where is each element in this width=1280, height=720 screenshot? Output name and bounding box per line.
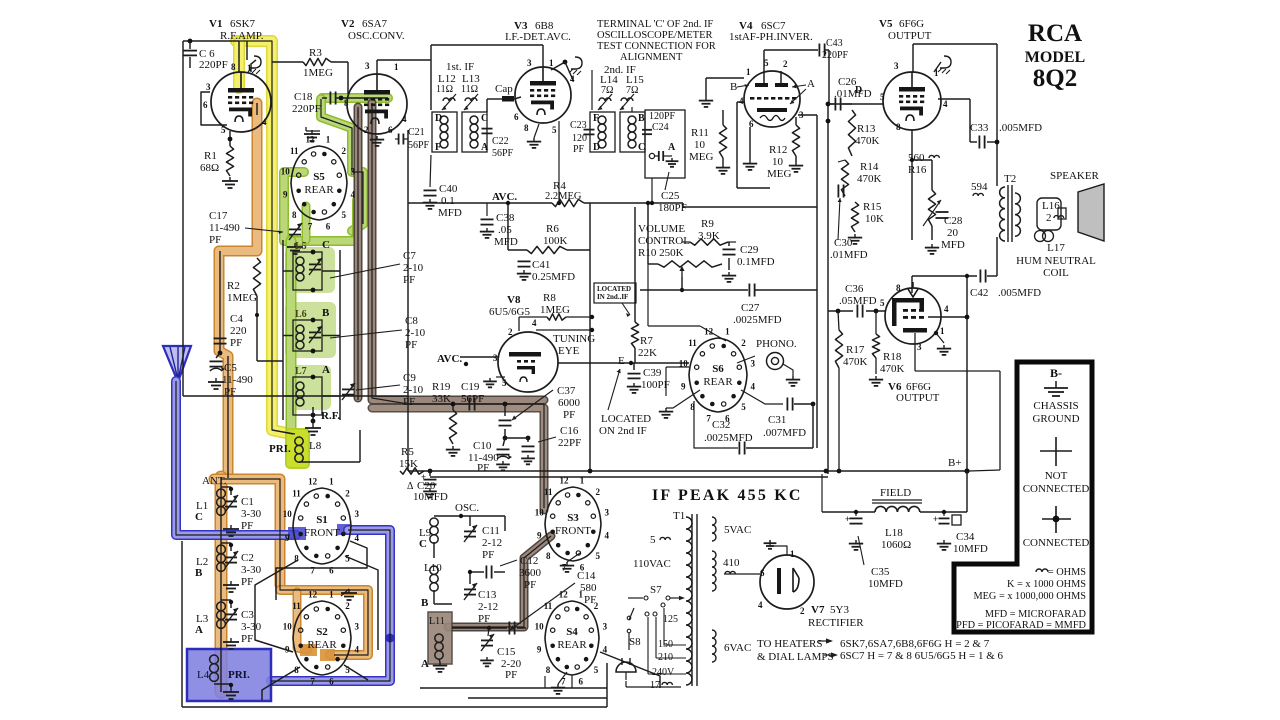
svg-text:T2: T2	[1004, 173, 1016, 185]
svg-text:220PF: 220PF	[199, 59, 228, 71]
label C20	[407, 480, 448, 503]
wire	[536, 328, 594, 332]
capacitor C43	[819, 44, 829, 105]
capacitor C20	[421, 471, 437, 497]
svg-text:4: 4	[351, 190, 356, 200]
node	[557, 201, 561, 205]
node	[339, 96, 344, 101]
svg-text:L10: L10	[424, 562, 442, 574]
svg-text:IF PEAK 455 KC: IF PEAK 455 KC	[652, 487, 803, 504]
label pin8 V2	[344, 98, 349, 108]
svg-text:1MEG: 1MEG	[303, 67, 333, 79]
svg-text:OSCILLOSCOPE/METER: OSCILLOSCOPE/METER	[597, 30, 713, 41]
tube V6	[885, 282, 941, 344]
capacitor C32	[739, 404, 813, 455]
capacitor C28	[912, 130, 965, 251]
label C24	[649, 111, 676, 133]
wire	[182, 41, 184, 396]
svg-text:4: 4	[739, 96, 744, 106]
label 1st IF	[436, 61, 480, 95]
svg-text:2: 2	[364, 125, 369, 135]
resistor R8	[519, 314, 594, 331]
svg-text:6: 6	[579, 676, 584, 686]
svg-text:11: 11	[688, 338, 697, 348]
resistor R1	[226, 146, 233, 176]
svg-text:MFD: MFD	[494, 236, 518, 248]
wire	[220, 251, 228, 478]
node	[229, 600, 233, 604]
label V8 type	[489, 306, 530, 318]
wire	[434, 516, 505, 531]
svg-text:3600: 3600	[519, 567, 542, 579]
svg-text:470K: 470K	[880, 363, 905, 375]
label C35	[858, 536, 903, 590]
svg-text:NOT: NOT	[1045, 470, 1068, 482]
svg-text:4: 4	[532, 318, 537, 328]
capacitor C27	[749, 284, 817, 297]
label 240V	[652, 667, 675, 678]
coil L1	[217, 489, 226, 515]
coil L7	[296, 382, 304, 406]
svg-text:56PF: 56PF	[461, 393, 484, 405]
node	[826, 102, 831, 124]
wire	[741, 390, 783, 404]
label C4	[230, 313, 247, 349]
svg-text:9: 9	[283, 190, 288, 200]
wire	[245, 228, 283, 234]
label PHONO	[756, 338, 797, 350]
svg-text:410: 410	[723, 557, 740, 569]
svg-text:PF: PF	[573, 144, 585, 155]
tube V8 tuning eye	[498, 332, 558, 392]
label C7	[403, 250, 424, 286]
svg-text:12: 12	[704, 327, 714, 337]
wire	[622, 303, 630, 317]
svg-text:V2: V2	[341, 18, 355, 30]
coil L4	[197, 655, 250, 681]
node	[503, 436, 531, 441]
node	[464, 362, 468, 366]
wire	[300, 644, 317, 656]
svg-text:C39: C39	[643, 367, 662, 379]
wire	[544, 676, 546, 688]
label B	[730, 81, 749, 93]
svg-text:MFD: MFD	[941, 239, 965, 251]
label C9	[403, 372, 424, 408]
svg-text:B: B	[195, 567, 203, 579]
svg-text:R9: R9	[701, 218, 714, 230]
capacitor C5	[210, 353, 226, 371]
svg-text:C37: C37	[557, 385, 576, 397]
wire	[283, 270, 340, 272]
svg-text:MFD: MFD	[438, 207, 462, 219]
label L18	[881, 527, 911, 551]
wire	[372, 107, 408, 404]
capacitor C13	[464, 572, 477, 600]
svg-text:= OHMS: = OHMS	[1048, 567, 1086, 578]
wire	[828, 103, 883, 105]
svg-text:11: 11	[290, 146, 299, 156]
wire	[285, 247, 335, 293]
svg-text:12: 12	[559, 590, 569, 600]
ground V4 pin1	[699, 97, 713, 107]
coil L4 highlight box	[187, 649, 271, 701]
svg-text:REAR: REAR	[304, 184, 334, 196]
label MEG OHMS	[973, 591, 1086, 602]
transformer T2 secondary	[1015, 193, 1020, 236]
svg-text:100K: 100K	[543, 235, 568, 247]
wire	[183, 41, 239, 72]
svg-text:1: 1	[790, 549, 795, 559]
resistor R2	[253, 258, 260, 296]
pin labels V4	[739, 58, 804, 129]
label B+	[948, 457, 962, 469]
svg-text:68Ω: 68Ω	[200, 162, 219, 174]
resistor R13	[848, 110, 879, 156]
label R9	[698, 218, 720, 242]
svg-text:TERMINAL 'C' OF 2nd. IF: TERMINAL 'C' OF 2nd. IF	[597, 19, 713, 30]
resistor R4	[552, 199, 584, 206]
svg-text:2-10: 2-10	[403, 262, 424, 274]
transformer T1 5VAC winding	[712, 517, 751, 541]
svg-text:C31: C31	[768, 414, 786, 426]
wire	[239, 41, 293, 434]
svg-text:210: 210	[658, 652, 673, 663]
pin 4	[262, 117, 267, 127]
wire	[302, 206, 311, 240]
ground C40	[423, 199, 437, 209]
capacitor C23	[570, 120, 595, 155]
coil L8	[272, 430, 322, 462]
wire	[584, 203, 817, 207]
coil L11	[421, 616, 445, 670]
svg-text:6U5/6G5: 6U5/6G5	[489, 306, 530, 318]
label ANT	[202, 475, 227, 487]
svg-text:C11: C11	[482, 525, 500, 537]
capacitor C37	[499, 404, 512, 438]
svg-text:6SC7 H = 7 & 8 6U5/6G5 H = 1: 6SC7 H = 7 & 8 6U5/6G5 H = 1 & 6	[840, 650, 1004, 662]
wire	[737, 356, 755, 363]
svg-text:+: +	[845, 514, 850, 524]
node	[188, 39, 193, 44]
label R4	[545, 180, 582, 202]
coil L13 adjust	[464, 94, 478, 110]
svg-text:11Ω: 11Ω	[436, 84, 453, 95]
svg-text:1stAF-PH.INVER.: 1stAF-PH.INVER.	[729, 31, 813, 43]
label L2	[195, 556, 208, 579]
switch S1	[283, 477, 360, 576]
wire	[680, 277, 684, 292]
wire	[280, 590, 368, 655]
svg-text:2: 2	[345, 488, 350, 498]
svg-text:A: A	[421, 658, 429, 670]
svg-text:3: 3	[603, 621, 608, 631]
svg-text:11: 11	[292, 488, 301, 498]
coil L7 box	[293, 377, 322, 415]
node	[311, 318, 316, 354]
grid cap connector	[487, 96, 521, 112]
svg-text:3: 3	[894, 61, 899, 71]
label V5 function	[888, 30, 932, 42]
svg-text:D: D	[435, 113, 442, 124]
wire	[770, 546, 787, 555]
svg-text:7: 7	[310, 565, 315, 575]
node	[311, 419, 316, 424]
svg-text:PF: PF	[505, 669, 517, 681]
legend box	[954, 362, 1092, 632]
svg-text:OUTPUT: OUTPUT	[888, 30, 932, 42]
svg-text:C22: C22	[492, 136, 509, 147]
label C31	[763, 414, 806, 439]
label PRI	[269, 443, 291, 455]
wire	[966, 276, 968, 471]
label C26	[834, 76, 872, 100]
svg-text:240V: 240V	[652, 667, 675, 678]
svg-text:S1: S1	[316, 514, 328, 526]
svg-text:5: 5	[221, 125, 226, 135]
svg-text:MODEL: MODEL	[1025, 49, 1085, 66]
phono jack	[767, 353, 784, 370]
capacitor C25	[655, 151, 678, 167]
coil L15 adjust	[620, 94, 634, 110]
svg-text:C21: C21	[408, 127, 425, 138]
switch S2	[283, 590, 360, 687]
svg-text:470K: 470K	[855, 135, 880, 147]
svg-text:C19: C19	[461, 381, 480, 393]
node	[459, 514, 463, 518]
wire	[287, 365, 331, 410]
capacitor C4	[214, 338, 227, 343]
wire	[345, 556, 378, 650]
svg-text:LOCATED: LOCATED	[601, 413, 651, 425]
svg-text:3: 3	[355, 621, 360, 631]
label 125	[663, 614, 678, 625]
svg-text:2-12: 2-12	[482, 537, 502, 549]
svg-text:5: 5	[552, 125, 557, 135]
label rectifier	[808, 617, 864, 629]
transformer 1st IF secondary box	[462, 112, 489, 153]
svg-text:PF: PF	[477, 462, 489, 474]
svg-text:2: 2	[341, 146, 346, 156]
svg-text:PF: PF	[209, 234, 221, 246]
label C25	[658, 172, 687, 214]
svg-text:12: 12	[305, 135, 315, 145]
svg-text:ALIGNMENT: ALIGNMENT	[620, 52, 683, 63]
svg-text:R1: R1	[204, 150, 217, 162]
note box	[594, 283, 636, 303]
svg-text:& DIAL LAMPS: & DIAL LAMPS	[757, 651, 834, 663]
label V4	[739, 20, 786, 32]
svg-text:11-490: 11-490	[222, 374, 253, 386]
coil L3	[217, 602, 226, 628]
label 5ohm	[650, 534, 670, 546]
capacitor C36	[828, 305, 886, 318]
svg-text:R6: R6	[546, 223, 559, 235]
node	[228, 137, 233, 142]
connected symbol	[1042, 506, 1071, 533]
svg-text:C: C	[322, 239, 330, 251]
label 150	[658, 639, 673, 650]
svg-text:2: 2	[345, 601, 350, 611]
capacitor C29	[723, 242, 736, 270]
label R1	[200, 150, 219, 174]
wire	[571, 675, 573, 688]
resistor R18	[872, 311, 904, 375]
svg-text:5: 5	[594, 665, 599, 675]
svg-text:RCA: RCA	[1028, 20, 1082, 47]
svg-text:220PF: 220PF	[292, 103, 321, 115]
wire	[694, 401, 738, 448]
coil L5 box	[293, 252, 322, 290]
svg-text:FRONT: FRONT	[555, 525, 591, 537]
node	[964, 468, 969, 473]
label SPEAKER	[1050, 170, 1100, 182]
label PFD	[956, 620, 1086, 631]
svg-text:220PF: 220PF	[822, 50, 849, 61]
svg-text:C4: C4	[230, 313, 243, 325]
wire	[434, 542, 452, 604]
svg-text:F: F	[593, 113, 599, 124]
ground RF	[305, 424, 321, 435]
svg-text:C9: C9	[403, 372, 416, 384]
pin2	[493, 318, 537, 388]
svg-text:+: +	[933, 514, 938, 524]
svg-text:10: 10	[694, 139, 706, 151]
label R19	[432, 381, 451, 405]
svg-text:S4: S4	[566, 626, 578, 638]
label VOLUME	[638, 223, 690, 259]
svg-text:C27: C27	[741, 302, 760, 314]
ground C10	[496, 461, 510, 470]
label L16	[1042, 200, 1064, 224]
label C5	[222, 362, 253, 398]
tube V1	[211, 72, 271, 132]
label L1	[195, 500, 208, 523]
svg-text:OSC.: OSC.	[455, 502, 479, 514]
svg-text:R12: R12	[769, 144, 787, 156]
capacitor C9	[342, 383, 355, 400]
ground S5 top	[304, 127, 320, 141]
svg-text:10: 10	[281, 166, 291, 176]
svg-text:L7: L7	[295, 366, 307, 377]
wire	[798, 115, 817, 118]
label V8	[507, 294, 521, 306]
svg-text:PRI.: PRI.	[228, 669, 250, 681]
wire	[337, 524, 350, 535]
terminal box C24	[645, 110, 685, 178]
resistor R3	[303, 58, 331, 65]
wire	[600, 652, 660, 688]
node blue junction	[386, 634, 395, 643]
svg-text:4: 4	[262, 117, 267, 127]
wire arrow	[818, 638, 833, 643]
antenna	[163, 346, 191, 382]
label C12	[500, 555, 542, 591]
resistor R6	[527, 246, 567, 253]
capacitor C39	[627, 363, 641, 393]
label V1	[209, 18, 256, 30]
label C39	[641, 367, 670, 391]
label C34	[953, 531, 988, 555]
capacitor C12	[470, 566, 505, 579]
label C14	[510, 570, 597, 630]
svg-text:10MFD: 10MFD	[953, 543, 988, 555]
svg-text:594: 594	[971, 181, 988, 193]
label V7	[811, 604, 849, 616]
svg-text:R13: R13	[857, 123, 876, 135]
svg-text:V1: V1	[209, 18, 222, 30]
svg-text:22PF: 22PF	[558, 437, 581, 449]
coil L6 box	[293, 320, 322, 351]
label V6 function	[896, 392, 940, 404]
svg-text:A: A	[807, 78, 815, 90]
capacitor C30	[830, 185, 868, 262]
label CHASSIS GROUND	[1032, 400, 1079, 425]
svg-text:9: 9	[537, 645, 542, 655]
switch S8 contacts	[627, 608, 634, 633]
label TO HEATERS	[757, 638, 834, 663]
svg-text:560: 560	[908, 152, 925, 164]
wire	[628, 596, 685, 600]
svg-text:C28: C28	[944, 215, 963, 227]
svg-text:CHASSIS: CHASSIS	[1033, 400, 1078, 412]
wire	[938, 99, 999, 144]
svg-text:6SK7,6SA7,6B8,6F6G H = 2 & 7: 6SK7,6SA7,6B8,6F6G H = 2 & 7	[840, 638, 990, 650]
wire	[331, 62, 348, 94]
capacitor C34	[933, 510, 961, 550]
svg-text:C26: C26	[838, 76, 857, 88]
capacitor C40	[424, 155, 462, 219]
label AVC	[492, 191, 517, 203]
wire arrow	[824, 652, 838, 657]
svg-text:PF: PF	[403, 274, 415, 286]
pin 6	[203, 100, 208, 110]
wire	[737, 102, 770, 188]
wire	[320, 649, 335, 661]
label C2	[241, 552, 262, 588]
ground chassis V3 pin1	[569, 57, 582, 75]
label heater note 2	[840, 650, 1004, 662]
svg-text:8: 8	[546, 665, 551, 675]
svg-text:OSC.CONV.: OSC.CONV.	[348, 30, 405, 42]
svg-text:ON 2nd IF: ON 2nd IF	[599, 425, 647, 437]
resistor R7	[631, 207, 638, 363]
label C18	[292, 91, 321, 115]
resistor R17	[835, 311, 867, 471]
svg-text:PRI.: PRI.	[269, 443, 291, 455]
wire	[321, 99, 363, 231]
wire	[297, 592, 308, 650]
wire	[506, 201, 527, 250]
coil L10	[424, 562, 442, 591]
svg-text:4: 4	[943, 99, 948, 109]
wire	[468, 697, 607, 699]
pin labels V5	[880, 61, 948, 132]
capacitor C3	[225, 608, 238, 625]
label C1	[241, 496, 262, 532]
ground chassis symbol	[1044, 381, 1068, 396]
wire	[706, 78, 744, 97]
svg-text:B+: B+	[948, 457, 962, 469]
svg-text:5: 5	[880, 298, 885, 308]
wire	[431, 45, 543, 110]
tube V5	[883, 72, 941, 130]
svg-text:S6: S6	[712, 363, 724, 375]
svg-text:56PF: 56PF	[408, 140, 430, 151]
capacitor C26	[828, 98, 852, 111]
svg-text:11-490: 11-490	[209, 222, 240, 234]
svg-text:11: 11	[292, 601, 301, 611]
